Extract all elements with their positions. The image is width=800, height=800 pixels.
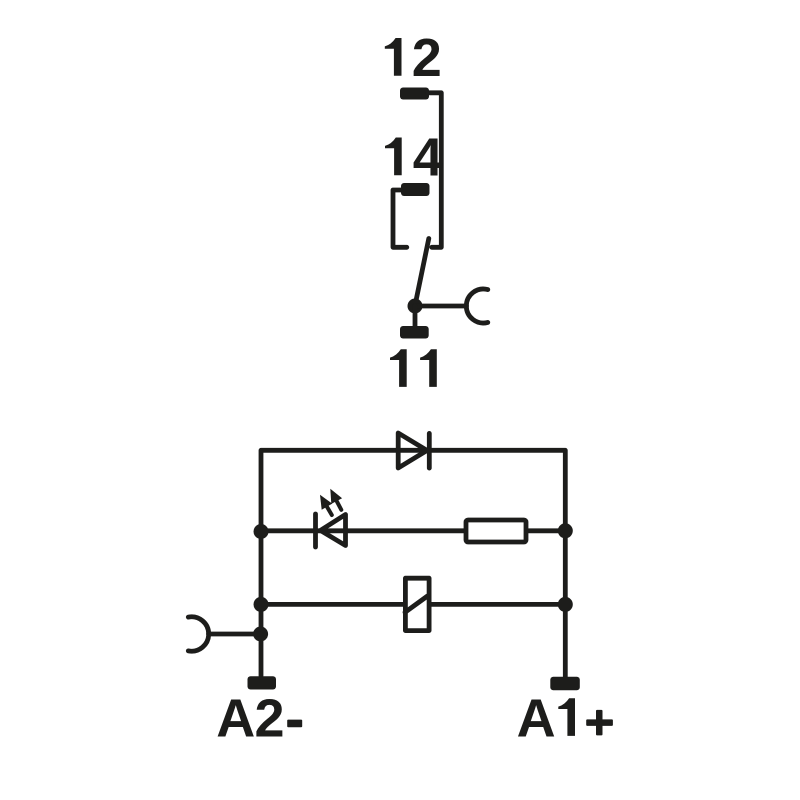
junction dot row3 right	[558, 597, 573, 612]
svg-text:A: A	[517, 688, 556, 748]
junction dot row2 left	[254, 524, 269, 539]
diode D1 cathode bar	[427, 433, 432, 468]
terminal 14	[401, 183, 430, 196]
resistor R	[466, 520, 526, 542]
wire node to terminal 11	[413, 306, 418, 328]
wire terminal 12 to contact (down, hook left)	[428, 93, 441, 248]
relay coil box	[405, 578, 429, 630]
row 3 wire left (coil branch)	[261, 602, 404, 607]
diode D1 triangle	[398, 433, 427, 468]
pin label 11	[390, 349, 407, 387]
terminal 11	[400, 326, 429, 339]
relay coil diagonal	[405, 596, 428, 612]
terminal 12	[400, 88, 429, 100]
left rail / top rail / right rail	[261, 450, 565, 677]
terminal A2-	[248, 676, 277, 689]
row 3 wire right of coil	[431, 602, 566, 607]
plug-in clamp (top, opening right)	[466, 289, 487, 323]
svg-text:A: A	[216, 689, 255, 749]
plug-in clamp (bottom, opening left)	[188, 617, 208, 651]
LED arrow 2	[330, 489, 342, 510]
contact node 11	[408, 299, 423, 314]
row 2 wire left (LED branch)	[261, 528, 465, 533]
junction dot row3 left	[254, 597, 269, 612]
wire clamp to left rail	[209, 632, 262, 637]
LED cathode bar	[313, 514, 318, 547]
junction dot clamp branch	[253, 627, 268, 642]
LED arrow 1	[320, 495, 332, 515]
wire terminal 14 to contact (down, hook right)	[393, 190, 407, 247]
wire node to plug-in clamp	[415, 304, 467, 309]
switch lever	[415, 239, 429, 306]
pin label 14	[385, 138, 402, 176]
svg-text:2: 2	[255, 689, 285, 749]
junction dot row2 right	[558, 523, 573, 538]
svg-text:2: 2	[412, 28, 442, 88]
terminal A1+	[550, 677, 580, 690]
LED triangle (pointing left)	[321, 515, 346, 546]
svg-text:4: 4	[413, 128, 443, 188]
row 2 wire right of resistor	[527, 528, 565, 533]
pin label 12	[385, 38, 402, 76]
